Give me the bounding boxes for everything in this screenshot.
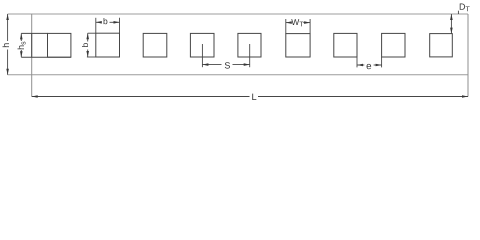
b top arrow left bbox=[96, 21, 102, 24]
dimension e left riser (tooth 7 right edge extended) bbox=[356, 57, 358, 67]
dimension S left riser bbox=[201, 44, 203, 67]
S arrow right bbox=[244, 63, 250, 66]
h arrow up bbox=[6, 14, 9, 20]
belt left end edge + L left extension bbox=[31, 14, 33, 97]
dimension b left line bbox=[87, 33, 89, 41]
tooth square 2 bbox=[96, 33, 120, 57]
belt right end edge + L right extension bbox=[467, 14, 469, 97]
dimension h_s line bbox=[20, 33, 22, 41]
L arrow left bbox=[32, 95, 38, 98]
dimension b left: extension lines bbox=[88, 32, 96, 34]
dimension b top: extension lines bbox=[95, 18, 97, 33]
dimension e right riser (tooth 8 left edge extended) bbox=[381, 57, 383, 67]
b left arrow up bbox=[86, 33, 89, 39]
tooth square 5 bbox=[238, 33, 261, 57]
dimension W_T right extension bbox=[309, 19, 311, 34]
D_T label leader bbox=[457, 11, 459, 14]
b top arrow right bbox=[114, 21, 120, 24]
belt top line (faint) bbox=[8, 13, 468, 15]
h arrow down bbox=[6, 69, 9, 75]
tooth square 9 bbox=[430, 34, 453, 57]
left section left edge (dark part) bbox=[31, 33, 33, 57]
svg-text:S: S bbox=[224, 60, 230, 70]
h_s arrow down bbox=[20, 51, 23, 57]
belt bottom line (faint) bbox=[8, 74, 468, 76]
tooth square 3 bbox=[143, 33, 167, 57]
L arrow right bbox=[462, 95, 468, 98]
dimension W_T left extension bbox=[285, 19, 287, 34]
D_T arrow up bbox=[450, 14, 453, 20]
tooth square 1 bbox=[48, 33, 71, 57]
left section top edge with h_s top extension bbox=[21, 32, 47, 34]
dimension h line bbox=[7, 14, 9, 41]
e arrow left bbox=[357, 64, 363, 67]
tooth square 7 bbox=[334, 33, 357, 57]
dimension D_T double-arrow line bbox=[450, 14, 452, 34]
S arrow left bbox=[202, 63, 208, 66]
dimension b top line bbox=[96, 21, 101, 23]
dimension W_T line bbox=[286, 22, 291, 24]
dimension S right riser bbox=[249, 44, 251, 67]
e arrow right bbox=[376, 64, 382, 67]
dimension e line bbox=[357, 64, 364, 66]
W_T arrow left bbox=[286, 21, 292, 24]
svg-text:h: h bbox=[1, 43, 11, 48]
W_T arrow right bbox=[304, 21, 310, 24]
svg-text:b: b bbox=[103, 16, 108, 26]
svg-text:L: L bbox=[252, 92, 257, 102]
tooth square 6 bbox=[286, 34, 310, 57]
left section bottom edge with h_s bottom extension bbox=[21, 56, 71, 58]
h_s arrow up bbox=[20, 33, 23, 39]
b left arrow down bbox=[86, 51, 89, 57]
tooth square 8 bbox=[382, 33, 405, 57]
svg-text:b: b bbox=[80, 43, 90, 48]
dimension S line bbox=[202, 64, 221, 66]
dimension L line bbox=[32, 96, 250, 98]
D_T arrow down bbox=[450, 28, 453, 34]
tooth square 4 bbox=[190, 33, 214, 57]
svg-text:e: e bbox=[366, 61, 372, 72]
